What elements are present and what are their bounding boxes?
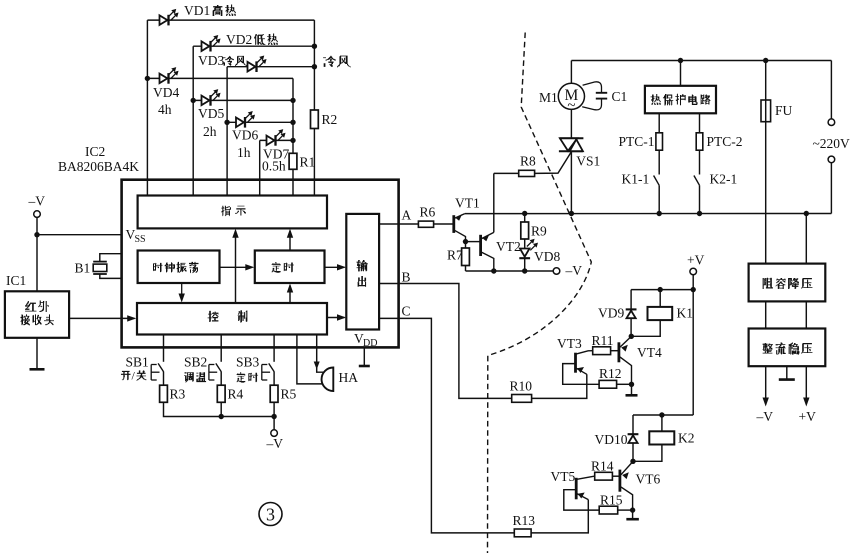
resistor R12 (599, 366, 622, 388)
diode VD9 (598, 290, 637, 337)
svg-text:R7: R7 (447, 248, 463, 263)
svg-text:R15: R15 (600, 493, 623, 508)
output +V arrow (799, 366, 817, 424)
svg-text:VD3: VD3 (198, 53, 224, 68)
wire VD7 row (260, 139, 293, 141)
svg-text:C1: C1 (612, 89, 628, 104)
wire K2 rail (633, 414, 693, 416)
resistor R3 (160, 385, 168, 402)
junction VT4 collector R12 (629, 382, 634, 387)
svg-text:R14: R14 (591, 459, 614, 474)
svg-text:R5: R5 (281, 387, 297, 402)
label VD6 1h (232, 128, 258, 161)
buzzer HA (322, 368, 359, 392)
svg-text:1h: 1h (237, 145, 251, 160)
label SB3 timing (236, 355, 260, 383)
junction VD6 row (224, 120, 229, 125)
svg-text:R13: R13 (513, 513, 536, 528)
svg-text:B: B (402, 270, 411, 285)
transistor VT3 (557, 336, 593, 374)
svg-text:~220V: ~220V (813, 136, 850, 151)
output -V arrow (756, 366, 774, 424)
label VD4 4h (153, 85, 179, 117)
wire VT5 base loop (564, 490, 599, 510)
svg-text:R10: R10 (510, 379, 533, 394)
fuse FU (761, 61, 793, 264)
svg-text:A: A (402, 208, 412, 223)
svg-text:VT3: VT3 (557, 336, 582, 351)
junction VD7 right (290, 138, 295, 143)
wire buttons common (164, 402, 275, 416)
svg-text:VD9: VD9 (598, 306, 624, 321)
wire R15 to VT6 collector (618, 509, 633, 511)
diode VD10 (595, 415, 639, 461)
resistor R13 (513, 513, 536, 537)
junction VD3 right (312, 64, 317, 69)
wire R13 to VT5 emitter (531, 500, 588, 533)
transistor VT1 (454, 196, 480, 242)
ground VT4 (626, 394, 638, 397)
resistor R9 (521, 214, 547, 249)
block control (137, 303, 327, 335)
junction VT6 collector R15 (630, 507, 635, 512)
svg-text:R2: R2 (322, 112, 338, 127)
node C wire to R13 (379, 304, 514, 533)
relay coil K2 (633, 415, 695, 461)
svg-text:M1: M1 (539, 90, 558, 105)
wire VD7 drop (259, 140, 261, 195)
wire VT2 emitter to R8 (493, 173, 495, 232)
wire VT3 base loop (563, 364, 599, 385)
label SB1 on/off (121, 355, 149, 383)
LED VD1 (160, 9, 179, 26)
label IC2 BA8206BA4K (58, 144, 139, 174)
wire VT1 emitter bus (465, 213, 832, 215)
svg-text:SB1: SB1 (126, 355, 149, 370)
wire R10 to VT3 emitter (532, 374, 587, 398)
svg-text:K2: K2 (678, 431, 695, 446)
wire SB1 column (163, 335, 165, 362)
svg-text:R1: R1 (300, 155, 316, 170)
junction VD5 right (290, 98, 295, 103)
LED VD5 (202, 89, 221, 106)
arrow timer to indicator (287, 229, 293, 251)
svg-text:B1: B1 (75, 261, 91, 276)
svg-text:0.5h: 0.5h (262, 159, 286, 174)
wire negative rail VT2 (466, 270, 557, 272)
ground VT6 (626, 518, 639, 521)
dashed isolation boundary (488, 33, 592, 553)
svg-text:VD2: VD2 (226, 32, 252, 47)
motor M1 (539, 61, 585, 139)
resistor R6 (418, 205, 435, 228)
wire VSS (37, 234, 122, 236)
svg-text:BA8206BA4K: BA8206BA4K (58, 159, 139, 174)
junction thermal lead (678, 58, 683, 63)
wire VD3 row (227, 66, 314, 68)
label VD5 2h (198, 106, 224, 139)
junction VD8 bottom (522, 268, 527, 273)
svg-text:PTC-2: PTC-2 (707, 134, 743, 149)
node A (379, 208, 418, 225)
junction VT2 collector (491, 268, 496, 273)
junction R4 common (219, 414, 224, 419)
wire R6 to VT1 (434, 223, 454, 225)
switch K2-1 (694, 150, 737, 213)
junction R5 common (271, 414, 276, 419)
wires dropper to rectifier (765, 301, 767, 328)
terminal 220V upper (828, 61, 835, 126)
wire buzzer feed (297, 335, 324, 384)
svg-text:R9: R9 (531, 224, 547, 239)
wire IC1 output arrow (69, 315, 136, 321)
junction VD2 right (312, 44, 317, 49)
junction K1-1 bus (657, 211, 662, 216)
junction VSS wire (34, 232, 39, 237)
wire VD6 row (227, 121, 293, 123)
wire VD1 row (147, 19, 314, 21)
svg-text:DD: DD (363, 338, 377, 349)
LED VD7 (267, 129, 286, 146)
transistor VT6 (620, 461, 661, 510)
capacitor C1 (582, 82, 627, 110)
svg-text:–V: –V (28, 194, 46, 209)
svg-text:SB2: SB2 (184, 355, 207, 370)
svg-text:VS1: VS1 (576, 154, 600, 169)
node B wire to R10 (379, 270, 512, 399)
svg-text:PTC-1: PTC-1 (619, 134, 655, 149)
svg-text:C: C (402, 304, 411, 319)
arrow osc to control (179, 283, 185, 303)
junction K2-1 bus (697, 211, 702, 216)
svg-text:–V: –V (266, 436, 284, 451)
arrow control to timer (287, 284, 293, 304)
resistor R11 (592, 333, 614, 355)
svg-text:R8: R8 (520, 154, 536, 169)
label VD2 low-heat (226, 32, 278, 47)
transistor VT4 (619, 336, 662, 384)
svg-text:VD6: VD6 (232, 128, 258, 143)
svg-text:HA: HA (339, 370, 359, 385)
resistor R15 (599, 493, 623, 515)
svg-text:R11: R11 (592, 333, 614, 348)
resistor R5 (270, 385, 278, 402)
svg-text:K1: K1 (677, 306, 694, 321)
svg-text:4h: 4h (158, 102, 172, 117)
crystal B1 (93, 254, 121, 279)
pin VSS (126, 227, 146, 245)
junction VD6 right (290, 120, 295, 125)
wire SB2 column (220, 335, 222, 362)
junction FU top (763, 58, 768, 63)
block timer (255, 251, 325, 284)
svg-text:VT5: VT5 (551, 469, 576, 484)
LED VD3 (248, 55, 267, 72)
triac VS1 (559, 138, 600, 168)
svg-text:+V: +V (799, 409, 817, 424)
svg-text:–V: –V (565, 263, 583, 278)
junction K2 coil top (659, 412, 664, 417)
label SB2 temp-adjust (184, 355, 207, 383)
svg-text:VD5: VD5 (198, 106, 224, 121)
junction R9 top (522, 211, 527, 216)
IC U2 outline (122, 180, 399, 348)
wire -V to VSS and IC1 (36, 217, 38, 291)
block clock oscillator (138, 251, 220, 284)
svg-text:VD1: VD1 (184, 3, 210, 18)
svg-text:R12: R12 (599, 366, 622, 381)
resistor R2 (311, 110, 319, 129)
resistor R7 (447, 242, 469, 271)
junction dropper input (804, 211, 809, 216)
label VD3 cool-wind (198, 53, 247, 68)
IC U1 infrared receiver (5, 291, 69, 338)
wire +V feed (692, 275, 694, 415)
wire VT4 ground lead (631, 384, 633, 394)
svg-text:IC2: IC2 (85, 144, 105, 159)
svg-text:VD4: VD4 (153, 85, 179, 100)
wire SB3 column (273, 335, 275, 362)
relay coil K1 (631, 290, 693, 337)
resistor R8 (494, 154, 536, 177)
svg-text:VT1: VT1 (455, 196, 480, 211)
arrow osc to timer (220, 264, 255, 270)
junction VT4 emitter (629, 334, 634, 339)
resistor R14 (591, 459, 614, 481)
arrow control to output (327, 314, 346, 320)
wire R11 to VT4 (611, 350, 619, 352)
junction VT6 emitter (630, 459, 635, 464)
wire VD2 row (193, 45, 314, 47)
svg-text:FU: FU (775, 103, 793, 118)
wire K1 rail (631, 289, 693, 291)
transistor VT2 (481, 232, 521, 271)
terminal -V top left (28, 194, 46, 218)
thermistor PTC-2 (696, 113, 742, 150)
wire VT6 ground lead (632, 510, 634, 518)
svg-text:3: 3 (266, 505, 275, 525)
wire left bus 1 (146, 20, 148, 195)
wire VT1 collector to VT2 base (463, 239, 481, 244)
label cool-wind right (323, 56, 350, 67)
wire left bus 2 (192, 46, 194, 195)
LED VD4 (160, 67, 179, 84)
svg-text:VT4: VT4 (637, 345, 662, 360)
resistor R1 (289, 153, 297, 169)
wire VDD ground lead (363, 347, 365, 365)
svg-text:R4: R4 (228, 387, 244, 402)
svg-text:K2-1: K2-1 (710, 172, 738, 187)
ground VDD (359, 365, 370, 368)
svg-text:2h: 2h (203, 124, 217, 139)
ground IC1 (30, 368, 45, 371)
svg-text:SB3: SB3 (236, 355, 260, 370)
svg-text:VT6: VT6 (636, 472, 661, 487)
resistor R4 (217, 385, 225, 402)
svg-text:–V: –V (756, 409, 774, 424)
svg-text:IC1: IC1 (6, 273, 26, 288)
block output (346, 214, 379, 330)
wire right bus R2 (313, 20, 315, 195)
junction VD4 row (145, 76, 150, 81)
wire triac to bus (570, 151, 572, 213)
LED VD6 (236, 111, 255, 128)
wire right bus R1 (292, 78, 294, 195)
switch SB1 (151, 363, 163, 385)
block rectifier regulator (749, 329, 826, 367)
wire R8 to triac gate (535, 151, 572, 173)
junction K1 coil top (658, 287, 663, 292)
svg-text:+V: +V (687, 253, 705, 268)
terminal -V VT2 (553, 263, 582, 278)
svg-text:VD10: VD10 (595, 432, 628, 447)
wire VD5 row (193, 99, 293, 101)
pin VDD (354, 331, 377, 349)
terminal -V buttons (266, 417, 284, 452)
ground rectifier (779, 366, 795, 379)
wire IC1 ground lead (36, 338, 38, 369)
wire mains top bus (571, 60, 831, 62)
wire dropper right lead (805, 214, 807, 264)
junction VD5 row (191, 98, 196, 103)
terminal 220V lower (828, 156, 835, 213)
wire buzzer arrow (314, 335, 324, 373)
switch K1-1 (622, 150, 660, 213)
svg-text:R6: R6 (420, 205, 436, 220)
wire R14 to VT6 (612, 475, 620, 477)
switch SB2 (209, 363, 221, 385)
svg-text:VD8: VD8 (534, 249, 560, 264)
junction triac bottom (569, 211, 574, 216)
terminal +V (687, 253, 705, 275)
arrow control to indicator (232, 229, 238, 303)
svg-text:SS: SS (135, 234, 146, 245)
arrow timer to output (325, 264, 347, 270)
block thermal protection (645, 61, 716, 114)
LED VD8 (519, 239, 560, 271)
junction K1 rail (691, 287, 696, 292)
figure number 3 (259, 503, 282, 526)
switch SB3 (262, 363, 274, 385)
wire R12 to VT4 collector (617, 383, 632, 385)
transistor VT5 (551, 469, 595, 500)
resistor R10 (510, 379, 533, 403)
svg-text:VT2: VT2 (496, 239, 521, 254)
thermistor PTC-1 (619, 113, 663, 150)
label VD7 0.5h (262, 147, 289, 174)
block indicator (138, 196, 327, 229)
wire left bus 3 (226, 67, 228, 196)
svg-text:R3: R3 (170, 387, 186, 402)
svg-text:K1-1: K1-1 (622, 172, 650, 187)
label VD1 high-heat (184, 3, 236, 18)
block RC dropper (749, 264, 826, 302)
wire VD4 row (147, 77, 293, 79)
LED VD2 (202, 35, 221, 52)
